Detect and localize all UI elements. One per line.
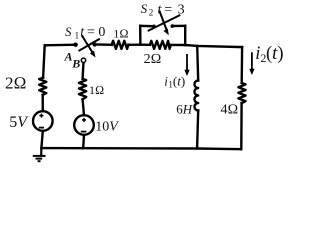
wire 10V to bottom rail <box>82 135 85 148</box>
wire combo top path right <box>174 25 185 28</box>
svg-text:3: 3 <box>178 3 185 18</box>
switch S2 blade <box>148 11 181 36</box>
svg-text:1Ω: 1Ω <box>113 26 128 40</box>
svg-text:2Ω: 2Ω <box>144 52 162 67</box>
node B contact circle <box>81 58 85 62</box>
wire bottom rail <box>41 148 241 149</box>
voltage source V2 10V circle <box>74 115 94 135</box>
svg-text:1: 1 <box>75 30 80 40</box>
svg-text:S: S <box>141 1 148 16</box>
wire main top rail to right corner <box>185 45 242 47</box>
wire top rail S1-to-1ohm segment <box>95 43 112 46</box>
wire left branch to 5V <box>42 95 44 111</box>
node S1 right contact dot <box>92 42 96 46</box>
svg-text:4Ω: 4Ω <box>221 103 239 118</box>
svg-text:(t): (t) <box>173 73 185 88</box>
current arrow i2 <box>249 52 254 75</box>
wire combo left vertical <box>139 26 142 45</box>
current arrow i1 <box>184 54 189 76</box>
resistor R 2ohm left <box>39 78 46 95</box>
node S2 right contact dot <box>171 24 175 28</box>
svg-text:1Ω: 1Ω <box>89 83 104 97</box>
svg-text:= 0: = 0 <box>87 25 105 40</box>
inductor L 6H coil <box>194 81 198 111</box>
wire combo lower left stub <box>140 44 150 46</box>
wire 2ohm-to-comboright <box>171 44 185 46</box>
wire left branch upper <box>43 45 45 77</box>
svg-text:(t): (t) <box>266 44 283 64</box>
ground <box>33 148 46 161</box>
svg-text:10V: 10V <box>95 120 119 135</box>
svg-text:2Ω: 2Ω <box>5 74 27 93</box>
voltage source V1 5V circle <box>33 111 53 131</box>
node A dot <box>73 43 77 47</box>
wire 6H branch upper <box>197 46 198 81</box>
svg-text:S: S <box>65 24 72 39</box>
wire 4ohm branch lower <box>240 103 243 149</box>
svg-text:=: = <box>164 3 172 18</box>
node S2 left contact dot <box>152 25 156 29</box>
svg-text:5V: 5V <box>9 114 29 131</box>
wire 4ohm branch upper <box>240 47 243 83</box>
wire 1ohm middle to 10V <box>83 99 84 115</box>
wire top rail left segment <box>45 44 76 47</box>
resistor R 1ohm middle <box>79 79 86 100</box>
wire 1ohm-to-combo segment <box>128 44 140 46</box>
voltage source V2 polarity marks <box>81 118 87 132</box>
voltage source V1 polarity marks <box>39 114 44 128</box>
svg-text:B: B <box>71 57 80 71</box>
svg-text:2: 2 <box>149 8 154 18</box>
wire combo top path left <box>140 25 152 28</box>
wire 6H branch lower <box>197 111 198 149</box>
wire combo right vertical <box>184 26 186 45</box>
wire B branch upper <box>81 62 84 78</box>
wire 5V to bottom corner <box>41 131 42 148</box>
switch S1 blade <box>79 35 100 57</box>
svg-text:6H: 6H <box>176 101 193 116</box>
resistor R 1ohm top <box>112 41 129 49</box>
svg-text:A: A <box>64 50 73 64</box>
resistor R 4ohm <box>238 83 245 103</box>
resistor R 2ohm top <box>150 41 171 49</box>
